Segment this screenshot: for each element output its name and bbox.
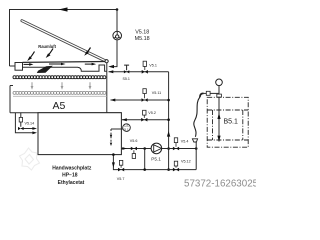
solvent feed pipe (top)	[109, 71, 169, 73]
level switch LS5.1	[123, 124, 131, 132]
node discharge/funnel drop	[195, 147, 198, 150]
svg-text:Raumluft: Raumluft	[38, 44, 56, 49]
sash handle wedge	[37, 66, 53, 73]
svg-text:V5.12: V5.12	[181, 159, 191, 163]
arrow into tank (valve line)	[32, 127, 37, 130]
valve V5.2 actuator	[143, 115, 145, 118]
arrow to tank	[122, 118, 127, 121]
valve V5.1 actuator	[144, 66, 146, 70]
valve V5.1	[142, 70, 145, 74]
duct airflow arrow b	[49, 63, 62, 65]
lid fitting	[206, 91, 210, 95]
intake arrow 2	[48, 49, 53, 56]
node pipe3/header	[167, 118, 170, 121]
drain down arrow	[112, 162, 115, 167]
fresh water pipe	[111, 99, 169, 101]
dip tube up arrow	[217, 113, 220, 119]
duct right wall	[106, 63, 108, 113]
sash hinge pivot	[105, 60, 108, 63]
svg-text:V5.14: V5.14	[25, 122, 35, 126]
valve V5.4 actuator	[175, 143, 177, 147]
valve V5.11 actuator	[144, 93, 146, 98]
valve V5.14 actuator	[19, 117, 22, 122]
intake arrow 3	[86, 48, 90, 54]
manual valve S5.1	[124, 65, 129, 70]
svg-text:V5.7: V5.7	[117, 177, 125, 181]
motorized valve V5.18/M5.18	[113, 31, 122, 40]
vent stem	[218, 86, 220, 95]
dip tube down arrow	[217, 136, 220, 142]
drum right inner wall	[242, 110, 244, 140]
dip tube	[218, 97, 220, 141]
exhaust flow arrow	[59, 7, 68, 11]
pump discharge pipe	[162, 148, 197, 150]
valve V5.7	[118, 168, 121, 172]
drum lid line	[203, 92, 219, 94]
pump P5.1	[151, 143, 162, 154]
svg-text:V5.18: V5.18	[135, 30, 149, 36]
valve V5.14	[18, 127, 21, 130]
duct sill profile	[23, 65, 107, 71]
svg-text:Ethylacetat: Ethylacetat	[58, 180, 85, 186]
arrow into tank (overflow)	[32, 131, 37, 134]
perforated worktop bead row	[13, 76, 106, 79]
main header pipe	[168, 72, 170, 170]
valve V5.12	[173, 168, 176, 172]
svg-text:P5.1: P5.1	[151, 156, 161, 161]
funnel	[192, 139, 197, 142]
svg-text:Handwaschplatz: Handwaschplatz	[52, 165, 92, 171]
level probe line	[111, 128, 123, 130]
svg-text:HP−18: HP−18	[62, 173, 78, 179]
plenum down arrow 1	[31, 82, 33, 87]
node tank bottom	[112, 153, 115, 156]
valve V5.11	[142, 98, 145, 102]
valve V5.6 actuator below	[133, 150, 135, 153]
svg-text:B5.1: B5.1	[224, 118, 239, 125]
drum left inner wall	[212, 110, 214, 140]
svg-text:V5.11: V5.11	[152, 91, 161, 95]
funnel riser pipe	[195, 142, 197, 170]
exhaust arrow into hood collar	[108, 65, 114, 68]
drain stub pipe	[21, 113, 33, 129]
svg-text:A5: A5	[53, 100, 66, 112]
arrow to bench	[110, 99, 115, 102]
hose elbow	[200, 93, 204, 97]
svg-text:V5.2: V5.2	[148, 111, 156, 115]
flexible hose	[194, 97, 200, 137]
svg-text:S5.1: S5.1	[123, 77, 130, 81]
svg-text:M5.18: M5.18	[135, 36, 150, 42]
valve V5.12 actuator	[175, 166, 177, 168]
watermark rosette	[20, 148, 40, 170]
pump suction pipe	[121, 148, 151, 150]
node at duct corner	[116, 8, 119, 11]
bench bottom / tank top line	[10, 112, 121, 114]
svg-text:V5.4: V5.4	[181, 140, 189, 144]
tank feed pipe	[122, 119, 169, 121]
enclosure bottom stub	[10, 65, 16, 67]
lower bead row	[13, 91, 106, 94]
header up arrow	[167, 131, 170, 137]
drop pipe to drain	[144, 149, 146, 170]
intake arrow 1	[29, 52, 34, 59]
duct airflow arrow a	[24, 63, 30, 65]
solvent drum B5.1 outline	[207, 97, 248, 147]
duct left end cap	[15, 63, 23, 71]
svg-text:5.1: 5.1	[124, 128, 129, 132]
svg-text:V5.1: V5.1	[149, 63, 157, 67]
svg-text:57372-16263025: 57372-16263025	[184, 178, 256, 189]
A5 top faint line	[13, 95, 107, 97]
node suction/drop	[143, 147, 146, 150]
valve V5.6	[131, 147, 134, 151]
hand-wash tank	[38, 113, 121, 155]
valve V5.7 actuator	[120, 165, 122, 168]
plenum down arrow 3	[89, 82, 91, 87]
node drop/drain	[143, 168, 146, 171]
overflow pipe	[15, 113, 33, 133]
drum lid line (dash-dot)	[207, 109, 248, 111]
hood enclosure border	[10, 10, 118, 67]
arrow out of tank	[122, 147, 127, 150]
duct airflow arrow c	[85, 63, 92, 65]
arrow to hood	[108, 70, 113, 73]
svg-text:V5.6: V5.6	[130, 139, 138, 143]
workbench A5 left edge	[10, 86, 13, 113]
tank bottom drain	[113, 155, 196, 170]
sash blade (tilted)	[21, 19, 108, 62]
plenum down arrow 2	[61, 82, 63, 87]
valve V5.2	[141, 118, 144, 122]
node pump/header	[167, 147, 170, 150]
duct top edge	[23, 61, 106, 64]
drum bottom line (dash-dot)	[207, 139, 248, 141]
vent ball	[216, 79, 223, 86]
node pipe2/header	[167, 99, 170, 102]
valve V5.4	[173, 147, 176, 151]
bung fitting	[217, 94, 222, 97]
node drain/header	[167, 168, 170, 171]
exhaust riser pipe	[113, 10, 117, 67]
